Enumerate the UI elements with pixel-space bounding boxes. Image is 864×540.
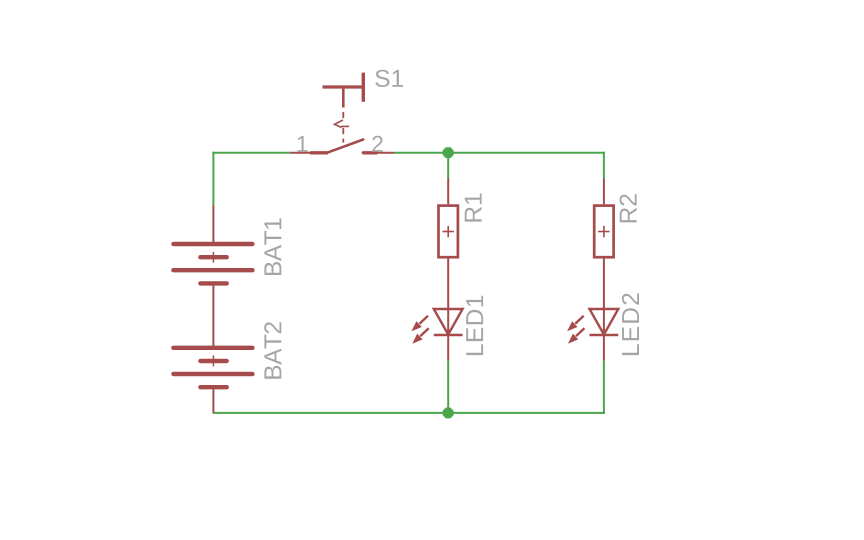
S1 pin number 1 [298, 136, 308, 152]
battery BAT1 [173, 205, 252, 348]
R1 label [465, 194, 482, 222]
BAT1 plus mark [212, 252, 214, 263]
wire right vertical top [603, 152, 605, 179]
LED2 arrow 1 [575, 316, 584, 324]
S1 actuator crossbar [341, 125, 349, 127]
LED2 through wire [603, 309, 605, 361]
S1 label [375, 70, 403, 87]
LED1 arrow 1 [420, 316, 429, 324]
S1 actuator dash b [342, 128, 344, 134]
LED1 through wire [447, 309, 449, 361]
BAT1 plate long 2 [173, 268, 252, 272]
junction top [443, 147, 454, 158]
R2 plus mark [598, 231, 610, 233]
S1 pin 1 wire [290, 152, 311, 154]
wire mid vertical top [447, 153, 449, 179]
S1 pin number 2 [372, 136, 382, 152]
R1 plus mark [442, 231, 454, 233]
R2 body box [594, 206, 613, 258]
S1 blade [328, 140, 363, 153]
BAT1 label [264, 218, 281, 275]
R1 bottom pin wire [447, 259, 449, 310]
wire top rail right (net N$2) [394, 152, 605, 154]
resistor R2 [594, 179, 613, 310]
wire left vertical [212, 152, 214, 205]
R1 body box [439, 206, 458, 258]
LED1 [411, 309, 462, 361]
junction bottom [443, 408, 454, 419]
BAT2 plate long 2 [173, 372, 252, 376]
BAT1 plate short 1 [200, 255, 226, 259]
S1 plunger stem [342, 89, 345, 108]
S1 actuator dash c [342, 139, 344, 143]
BAT1 plate short 2 [200, 281, 226, 285]
BAT2 plate long 1 [173, 346, 252, 350]
BAT2 plate short 2 [200, 385, 226, 389]
LED2 triangle [590, 309, 619, 335]
LED2 arrow 2 [576, 328, 584, 336]
wire top rail left (net N$1) [212, 152, 290, 154]
BAT1 plate long 1 [173, 242, 252, 246]
LED2 [567, 309, 618, 361]
BAT1 top pin wire [212, 205, 214, 244]
S1 plunger horizontal bar [323, 85, 362, 88]
S1 actuator chevron [335, 120, 344, 128]
wire mid vertical bottom [447, 361, 449, 414]
R2 label [620, 194, 637, 222]
S1 contact 2 bar [363, 151, 376, 154]
LED1 cathode bar [434, 334, 463, 337]
BAT2 bottom pin wire [212, 387, 214, 413]
BAT2 plate short 1 [200, 359, 226, 363]
wire bottom rail (GND net) [213, 412, 605, 414]
R1 top pin wire [447, 179, 449, 205]
R2 top pin wire [603, 179, 605, 205]
S1 contact 1 bar [311, 151, 327, 154]
S1 pin 2 wire [377, 152, 394, 154]
LED2 label [622, 293, 639, 355]
BAT2 plus mark [212, 356, 214, 367]
switch S1 [290, 73, 394, 153]
wire BAT1 to BAT2 [212, 283, 214, 347]
S1 actuator dash a [342, 112, 344, 118]
LED1 triangle [434, 309, 463, 335]
battery BAT2 [173, 348, 252, 413]
LED1 arrow 2 [420, 328, 428, 336]
wire right vertical bottom [603, 361, 605, 414]
S1 plunger vertical bar [362, 73, 365, 102]
BAT2 label [264, 322, 281, 379]
resistor R1 [439, 179, 458, 310]
R2 bottom pin wire [603, 259, 605, 310]
LED2 cathode bar [590, 334, 619, 337]
LED1 label [466, 296, 483, 355]
